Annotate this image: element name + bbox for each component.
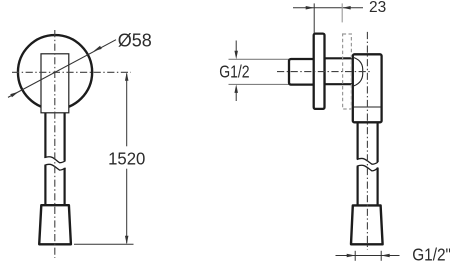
svg-text:23: 23 (369, 0, 386, 16)
svg-text:G1/2: G1/2 (219, 62, 249, 82)
svg-text:G1/2": G1/2" (412, 245, 450, 262)
svg-text:1520: 1520 (108, 148, 145, 169)
svg-text:Ø58: Ø58 (118, 31, 152, 51)
